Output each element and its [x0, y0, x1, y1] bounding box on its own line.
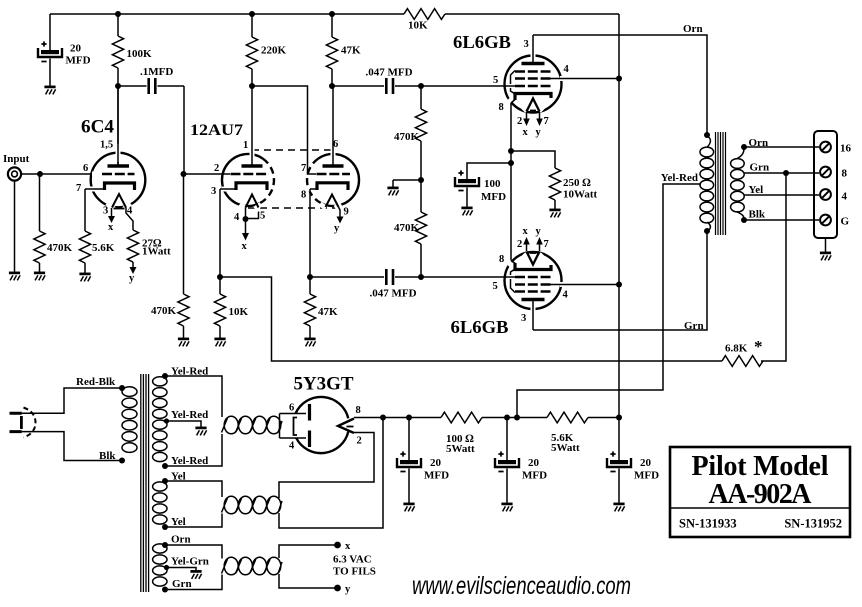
- svg-text:Yel-Red: Yel-Red: [661, 172, 698, 184]
- node junction 6.3V bottom: [162, 587, 168, 593]
- tube V4 6L6GB (bottom): [451, 252, 573, 338]
- svg-text:Yel-Grn: Yel-Grn: [171, 556, 209, 568]
- wire top supply rail: [50, 13, 619, 15]
- node junction cathode 100MFD: [508, 160, 514, 166]
- svg-text:y: y: [536, 127, 542, 138]
- svg-text:470K: 470K: [151, 305, 177, 317]
- ground (250ohm): [549, 210, 560, 218]
- wire secondary tap Grn 8ohm: [744, 162, 819, 174]
- node junction .047 out: [418, 83, 424, 89]
- wire secondary tap Blk G: [737, 209, 819, 221]
- transformer T2 core: [716, 132, 726, 235]
- ground (470K grid leak): [178, 339, 189, 347]
- wire 5Y3 pin2 to 5V winding: [279, 433, 374, 499]
- svg-text:470K: 470K: [394, 131, 420, 143]
- wire left cathode line: [219, 189, 221, 294]
- wire 6.3V to fils y: [279, 574, 351, 595]
- node junction 100K bottom: [115, 83, 121, 89]
- svg-text:4: 4: [564, 64, 570, 75]
- wire to 6L6GB top grid pin5: [421, 84, 516, 89]
- node junction HV bottom: [162, 463, 168, 469]
- svg-text:47K: 47K: [318, 306, 338, 318]
- transformer T2 output secondary: [731, 159, 745, 212]
- svg-text:47K: 47K: [341, 45, 361, 57]
- node junction grid 12AU7: [181, 171, 187, 177]
- svg-text:TO FILS: TO FILS: [333, 566, 376, 578]
- svg-text:Yel: Yel: [749, 184, 764, 196]
- svg-text:4: 4: [234, 212, 240, 223]
- wire 6.3V top lead Orn: [165, 534, 222, 559]
- resistor R 220K: [246, 14, 286, 86]
- ground (cap1): [403, 504, 414, 512]
- svg-text:10K: 10K: [229, 306, 249, 318]
- resistor R 6.8K feedback: [722, 337, 763, 366]
- svg-text:Input: Input: [3, 153, 30, 165]
- svg-text:20: 20: [430, 457, 442, 469]
- transformer T2 output primary: [700, 136, 714, 231]
- connector J1 input jack: [8, 167, 21, 272]
- wire 6.3V center tap Yel-Grn: [164, 556, 209, 571]
- node junction divider mid: [418, 177, 424, 183]
- ground (10K): [214, 339, 225, 347]
- resistor R 470K (12AU7 grid leak): [151, 174, 189, 338]
- resistor R 5.6K 5Watt: [547, 412, 588, 454]
- node junction 8ohm feedback: [783, 170, 789, 176]
- wire secondary tap Orn 16ohm: [737, 137, 819, 159]
- node junction screen bottom: [616, 282, 622, 288]
- svg-text:8: 8: [356, 405, 361, 416]
- svg-text:5: 5: [493, 75, 498, 86]
- svg-text:5.6K: 5.6K: [92, 242, 115, 254]
- wire HV center tap Yel-Red: [164, 409, 208, 427]
- wire 6L6 bottom plate to transformer (Grn): [533, 231, 707, 332]
- ground (5.6K): [79, 274, 90, 282]
- resistor R 5.6K (6C4 cathode): [79, 189, 114, 273]
- resistor R 100ohm 5Watt: [441, 412, 482, 455]
- svg-text:.047 MFD: .047 MFD: [365, 67, 412, 79]
- svg-text:470K: 470K: [394, 222, 420, 234]
- svg-text:x: x: [523, 127, 529, 138]
- svg-text:12AU7: 12AU7: [190, 122, 243, 139]
- wire 6L6 top heater arrows x y: [517, 112, 549, 138]
- svg-text:Pilot Model: Pilot Model: [692, 451, 829, 482]
- resistor R 27ohm 1Watt: [126, 208, 171, 268]
- node junction 220K bottom: [249, 83, 255, 89]
- capacitor C 20MFD (second filter): [495, 418, 547, 504]
- svg-text:7: 7: [76, 183, 81, 194]
- wire HV top lead Yel-Red: [165, 366, 222, 418]
- svg-text:MFD: MFD: [481, 191, 506, 203]
- wire 6C4 pin3 arrow x: [108, 208, 115, 233]
- svg-text:Blk: Blk: [99, 450, 116, 462]
- svg-text:.1MFD: .1MFD: [140, 66, 173, 78]
- wire terminal strip to ground: [825, 238, 827, 252]
- wire B+ rail: [354, 417, 619, 419]
- wire 5V bottom lead Yel: [165, 514, 222, 529]
- svg-text:100K: 100K: [127, 48, 153, 60]
- svg-text:AA-902A: AA-902A: [709, 479, 813, 510]
- node junction primary top: [119, 385, 125, 391]
- node junction rail cap1: [406, 415, 412, 421]
- svg-text:7: 7: [301, 163, 306, 174]
- node junction lower .047 line: [418, 274, 424, 280]
- svg-text:8: 8: [499, 254, 504, 265]
- ground (input jack): [9, 273, 20, 281]
- svg-text:20: 20: [640, 457, 652, 469]
- svg-text:10K: 10K: [408, 20, 428, 32]
- svg-text:MFD: MFD: [66, 55, 91, 67]
- svg-text:2: 2: [517, 239, 522, 250]
- svg-text:Grn: Grn: [684, 320, 704, 332]
- wire Yel-Red center tap: [517, 172, 701, 418]
- svg-text:Yel: Yel: [171, 516, 186, 528]
- wire twisted pair 6.3V: [222, 557, 283, 575]
- svg-text:*: *: [754, 337, 763, 356]
- ground (terminal strip): [820, 253, 831, 261]
- transformer T1 core: [141, 374, 149, 592]
- wire secondary tap Yel 4ohm: [744, 184, 819, 196]
- resistor R 47K (12AU7 plate load): [326, 14, 361, 86]
- svg-text:x: x: [108, 222, 114, 233]
- svg-text:10Watt: 10Watt: [563, 189, 598, 201]
- svg-text:SN-131952: SN-131952: [784, 517, 842, 531]
- svg-text:6.3 VAC: 6.3 VAC: [333, 554, 372, 566]
- node junction rail at 5Y3: [380, 415, 386, 421]
- node junction 12AU7 right cathode: [307, 274, 313, 280]
- node junction 47K bottom: [329, 83, 335, 89]
- svg-text:y: y: [345, 584, 351, 595]
- svg-text:1: 1: [243, 140, 248, 151]
- svg-text:Grn: Grn: [750, 162, 770, 174]
- node junction sec bottom: [741, 217, 747, 223]
- wire input to 6C4 grid: [22, 173, 104, 175]
- svg-text:x: x: [242, 241, 248, 252]
- wire 6L6 bottom heater arrows x y: [517, 226, 549, 251]
- connector AC plug: [10, 408, 36, 438]
- svg-text:.047 MFD: .047 MFD: [369, 288, 416, 300]
- svg-text:Yel-Red: Yel-Red: [171, 366, 208, 378]
- svg-text:4: 4: [842, 191, 848, 203]
- wire 12AU7 pin9 arrow y: [334, 207, 344, 234]
- svg-text:MFD: MFD: [424, 470, 449, 482]
- node junction 5V bottom: [162, 524, 168, 530]
- svg-text:Blk: Blk: [749, 209, 766, 221]
- svg-text:8: 8: [842, 168, 848, 180]
- transformer T1 HV secondary: [153, 377, 167, 462]
- svg-text:1Watt: 1Watt: [142, 246, 171, 258]
- svg-text:3: 3: [524, 39, 529, 50]
- ground (cap2): [501, 504, 512, 512]
- node junction top rail at 47K: [329, 11, 335, 17]
- svg-text:MFD: MFD: [522, 470, 547, 482]
- capacitor C .047MFD (lower coupling): [310, 269, 421, 300]
- capacitor C 20MFD (third filter): [607, 418, 659, 504]
- wire 5V winding return to rail: [279, 418, 383, 529]
- svg-text:20: 20: [70, 43, 82, 55]
- node junction rail Yel-Red: [514, 415, 520, 421]
- svg-text:6: 6: [333, 139, 338, 150]
- wire 220K bottom to 12AU7 grid pin7: [252, 86, 316, 174]
- node junction 6.3V top: [162, 542, 168, 548]
- svg-text:470K: 470K: [47, 242, 73, 254]
- tube V3 6L6GB (top): [453, 32, 572, 113]
- wire screen supply line: [618, 14, 620, 418]
- node Input label: [3, 153, 30, 165]
- svg-text:20: 20: [528, 457, 540, 469]
- svg-text:3: 3: [521, 313, 526, 324]
- svg-text:Red-Blk: Red-Blk: [76, 376, 116, 388]
- svg-text:7: 7: [544, 116, 549, 127]
- ground (HV center tap): [195, 428, 206, 436]
- node junction 12AU7 left cathode: [217, 274, 223, 280]
- resistor R 470K (input): [34, 174, 73, 272]
- ground (47K): [304, 339, 315, 347]
- svg-text:3: 3: [103, 206, 108, 217]
- node junction screen top: [616, 76, 622, 82]
- wire 6L6 bottom screen to rail: [551, 284, 620, 286]
- svg-text:Orn: Orn: [171, 534, 191, 546]
- node junction primary bottom: [119, 458, 125, 464]
- node junction rail screen: [616, 415, 622, 421]
- wire HV bottom lead Yel-Red: [165, 434, 222, 467]
- node junction 5V top: [162, 478, 168, 484]
- svg-text:4: 4: [563, 290, 569, 301]
- svg-text:6C4: 6C4: [81, 117, 114, 138]
- svg-text:Yel-Red: Yel-Red: [171, 455, 208, 467]
- wire 100K bottom to 6C4 plate: [117, 86, 119, 166]
- node junction rail cap2: [504, 415, 510, 421]
- wire 6.3V bottom lead Grn: [165, 575, 222, 591]
- resistor R 10K (top rail): [404, 9, 445, 32]
- svg-text:www.evilscienceaudio.com: www.evilscienceaudio.com: [412, 572, 631, 600]
- wire to 6L6GB bottom grid pin5: [421, 275, 516, 280]
- wire feedback from left cathode: [220, 277, 722, 361]
- resistor R 250ohm 10Watt: [511, 151, 598, 209]
- wire twisted pair HV to 5Y3 plates: [222, 416, 283, 434]
- label Pilot Model box: [670, 447, 850, 537]
- svg-text:4: 4: [289, 441, 295, 452]
- node 6.3 VAC label: [333, 554, 376, 578]
- svg-text:2: 2: [214, 163, 219, 174]
- svg-text:6L6GB: 6L6GB: [453, 32, 511, 52]
- wire twisted pair 5V: [222, 496, 283, 514]
- ground (6.3V center tap): [190, 571, 201, 579]
- node junction top rail at 100K: [115, 11, 121, 17]
- svg-text:8: 8: [301, 190, 306, 201]
- svg-text:5Y3GT: 5Y3GT: [294, 374, 354, 395]
- svg-text:y: y: [536, 226, 542, 237]
- svg-text:2: 2: [357, 436, 362, 447]
- capacitor C .047MFD (upper coupling): [332, 67, 421, 95]
- resistor R 10K (left cathode): [214, 294, 248, 338]
- resistor R 47K (right cathode): [304, 294, 338, 338]
- resistor R 470K (lower divider): [394, 180, 427, 277]
- svg-text:5: 5: [493, 281, 498, 292]
- svg-text:1,5: 1,5: [100, 140, 113, 151]
- label website: [412, 572, 631, 600]
- tube V5 5Y3GT rectifier: [280, 374, 362, 454]
- svg-text:3: 3: [211, 186, 216, 197]
- transformer T1 primary winding: [122, 387, 137, 453]
- node junction top rail at 220K: [249, 11, 255, 17]
- wire 6L6 top plate to transformer (Orn): [533, 23, 707, 135]
- node junction primary bottom: [704, 228, 710, 234]
- wire grid junction to 12AU7 pin2: [184, 172, 230, 177]
- wire right cathode line: [309, 189, 311, 294]
- svg-text:x: x: [523, 226, 529, 237]
- wire 5V top lead Yel: [165, 471, 222, 498]
- svg-text:7: 7: [544, 239, 549, 250]
- ground (100MFD): [461, 208, 472, 216]
- svg-text:x: x: [345, 541, 351, 552]
- transformer T1 5V winding: [153, 482, 167, 524]
- wire plug to primary: [22, 376, 122, 462]
- capacitor C 100MFD: [455, 163, 511, 207]
- svg-text:6: 6: [83, 163, 88, 174]
- svg-text:6.8K: 6.8K: [725, 343, 748, 355]
- wire 6L6 top screen to rail: [551, 78, 620, 80]
- svg-text:9: 9: [344, 207, 349, 218]
- capacitor C .1MFD: [118, 66, 184, 174]
- svg-text:Yel-Red: Yel-Red: [171, 409, 208, 421]
- transformer T1 6.3V winding: [153, 544, 167, 586]
- node junction primary top: [704, 132, 710, 138]
- connector speaker terminal strip: [814, 131, 852, 238]
- capacitor C 20MFD (top-left electrolytic): [38, 14, 91, 86]
- node junction cathode 250ohm: [508, 148, 514, 154]
- ground (cap3): [613, 504, 624, 512]
- svg-text:5Watt: 5Watt: [446, 443, 475, 455]
- wire 12AU7 pin4 arrow x: [242, 208, 259, 253]
- tube V2 12AU7 (both triodes): [190, 86, 359, 223]
- node junction sec top: [741, 144, 747, 150]
- svg-text:250 Ω: 250 Ω: [563, 177, 591, 189]
- ground (470K input): [34, 273, 45, 281]
- svg-text:8: 8: [499, 102, 504, 113]
- wire 27ohm arrow y: [129, 267, 137, 284]
- svg-text:220K: 220K: [261, 45, 287, 57]
- svg-text:6L6GB: 6L6GB: [451, 317, 509, 337]
- wire 6.3V to fils x: [279, 541, 351, 558]
- svg-text:y: y: [129, 273, 135, 284]
- wire divider mid to ground: [393, 180, 421, 187]
- svg-text:MFD: MFD: [634, 470, 659, 482]
- wire common cathode line: [510, 103, 512, 260]
- capacitor C 20MFD (first filter): [397, 418, 449, 504]
- tube V1 6C4: [76, 86, 145, 217]
- svg-text:16: 16: [840, 143, 852, 155]
- svg-text:Orn: Orn: [749, 137, 769, 149]
- svg-text:Yel: Yel: [171, 471, 186, 483]
- svg-text:Orn: Orn: [683, 23, 703, 35]
- svg-text:G: G: [841, 216, 850, 228]
- svg-text:5: 5: [260, 211, 265, 222]
- svg-text:Grn: Grn: [172, 578, 192, 590]
- node junction HV top: [162, 373, 168, 379]
- resistor R 100K: [112, 14, 152, 86]
- svg-text:SN-131933: SN-131933: [679, 517, 737, 531]
- ground (below 20MFD top-left): [44, 87, 55, 95]
- svg-text:6: 6: [289, 403, 294, 414]
- resistor R 470K (upper divider): [394, 86, 427, 180]
- svg-text:5Watt: 5Watt: [551, 442, 580, 454]
- node junction input: [37, 171, 43, 177]
- ground (divider mid): [387, 188, 398, 196]
- svg-text:100: 100: [484, 178, 501, 190]
- wire feedback to 8ohm tap: [761, 173, 786, 361]
- svg-text:2: 2: [517, 116, 522, 127]
- svg-text:y: y: [334, 223, 340, 234]
